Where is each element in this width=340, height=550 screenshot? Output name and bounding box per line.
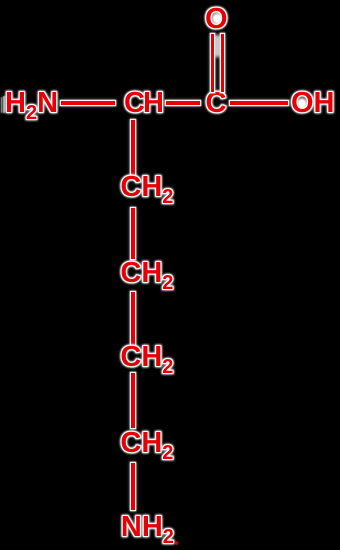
terminal amino group NH2 [121, 513, 174, 547]
methylene group CH2 beta [120, 173, 173, 207]
bond CH-C [166, 101, 200, 105]
alpha carbon CH [124, 89, 162, 118]
double bond C=O right line [221, 34, 225, 92]
small artifact dot right of NH2 subscript [175, 541, 179, 545]
methylene group CH2 epsilon [120, 429, 173, 463]
bond CH-CH2 [131, 120, 135, 176]
bond C-OH [230, 101, 288, 105]
white gap between double bond lines [214, 35, 221, 57]
amino group H2N [5, 89, 58, 123]
carbonyl oxygen O [205, 5, 228, 34]
double bond C=O left line [211, 34, 215, 92]
left edge artifact marks [1, 97, 3, 113]
white counter fill of carbonyl O [212, 13, 222, 24]
bond CH2-NH2 [131, 463, 135, 510]
carboxyl carbon C [206, 89, 227, 118]
bond CH2-CH2 (beta-gamma) [131, 208, 135, 259]
bond CH2-CH2 (delta-epsilon) [131, 373, 135, 428]
hydroxyl group OH [291, 89, 335, 118]
bond H2N-CH [61, 101, 115, 105]
methylene group CH2 gamma [120, 259, 173, 293]
methylene group CH2 delta [120, 343, 173, 377]
white counter fill of hydroxyl O [297, 98, 307, 109]
bond CH2-CH2 (gamma-delta) [131, 292, 135, 345]
